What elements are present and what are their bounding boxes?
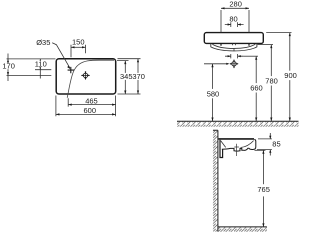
drain target symbol plan <box>81 71 90 80</box>
drain level ext line with arrow <box>204 63 228 65</box>
dim 765 ext <box>255 149 266 151</box>
dim 660 ext <box>243 55 258 57</box>
dim 660 line <box>255 56 257 121</box>
ground hatch upper <box>177 122 299 127</box>
svg-text:600: 600 <box>84 106 97 115</box>
svg-text:780: 780 <box>265 77 278 86</box>
dim 170 line <box>7 54 9 82</box>
ext line basin top level <box>7 58 56 60</box>
label 660 <box>250 83 263 92</box>
svg-text:660: 660 <box>250 84 263 93</box>
wall line <box>213 130 218 231</box>
dim 465 line <box>68 104 115 106</box>
drain centerline tick front <box>233 48 235 51</box>
dim 780 ext <box>258 44 274 46</box>
side back bracket <box>220 140 223 158</box>
svg-text:80: 80 <box>229 15 237 24</box>
dim 150 extension ticks <box>71 45 86 58</box>
fixing hole ticks <box>221 44 249 46</box>
dim 85 line <box>269 133 271 156</box>
basin plan outline <box>56 59 115 94</box>
label 900 <box>284 71 298 80</box>
lower hole arrows <box>231 54 238 58</box>
front rim outline <box>204 33 263 44</box>
dim 345 line <box>124 61 126 94</box>
dim 600 line <box>56 113 116 115</box>
floor hatch <box>218 227 267 231</box>
front apron inner arc <box>212 44 255 48</box>
side profile rim top <box>218 138 254 140</box>
tap hole ticks front <box>232 44 235 46</box>
dim 150 line <box>71 46 86 48</box>
label 110 <box>34 61 46 67</box>
svg-text:370: 370 <box>132 72 145 81</box>
tap hole cross <box>68 67 74 73</box>
leader line O35 <box>52 43 70 68</box>
label 170 <box>2 63 14 69</box>
svg-text:110: 110 <box>35 59 47 68</box>
svg-text:280: 280 <box>229 0 242 9</box>
labels 345 370 <box>120 73 146 80</box>
svg-text:Ø35: Ø35 <box>36 38 50 47</box>
ground line upper <box>177 120 299 122</box>
drain target symbol front <box>230 60 239 69</box>
dim 780 line <box>270 45 272 121</box>
dim 580 line <box>212 64 214 121</box>
dim 80 <box>231 22 238 27</box>
side web diagonal <box>221 141 226 148</box>
side drain center cross <box>234 144 239 156</box>
svg-text:170: 170 <box>2 61 15 70</box>
label 765 <box>257 184 271 196</box>
dim 370 line <box>137 59 139 94</box>
dim 900 line <box>289 33 291 121</box>
ext line drain level <box>7 75 52 77</box>
ext lines right dims <box>117 59 141 94</box>
side bowl inner line <box>241 141 254 148</box>
dim 110 line <box>39 59 41 79</box>
dim 765 line <box>262 150 264 227</box>
dim 900 ext <box>266 32 291 34</box>
svg-text:580: 580 <box>207 89 220 98</box>
svg-text:900: 900 <box>284 71 297 80</box>
label 580 <box>206 89 220 98</box>
svg-text:150: 150 <box>72 37 85 46</box>
svg-text:85: 85 <box>272 139 280 148</box>
label 780 <box>265 76 279 85</box>
dim 85 ext lines <box>257 139 272 150</box>
svg-text:345: 345 <box>120 72 133 81</box>
dim 280 line <box>221 7 249 9</box>
inner bowl curve <box>67 60 114 98</box>
front apron <box>211 43 257 51</box>
ext lines bottom dims <box>56 96 116 117</box>
ext line tap hole level <box>35 69 51 71</box>
floor line <box>218 226 267 228</box>
wall hatch <box>213 130 218 231</box>
side profile outline <box>222 139 256 151</box>
svg-text:465: 465 <box>85 97 98 106</box>
dim 280 ext lines <box>221 10 249 32</box>
svg-text:765: 765 <box>257 185 270 194</box>
